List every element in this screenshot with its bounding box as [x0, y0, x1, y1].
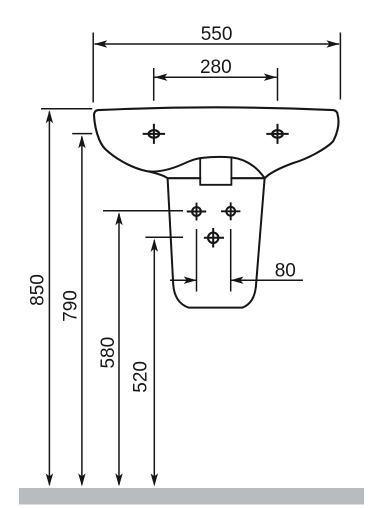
svg-text:280: 280	[200, 57, 232, 78]
dim 790	[72, 134, 92, 485]
svg-text:520: 520	[131, 361, 152, 393]
floor slab	[19, 488, 364, 505]
svg-text:80: 80	[275, 260, 296, 281]
dim 850	[41, 109, 92, 485]
dim 80	[170, 229, 303, 292]
basin outline	[94, 107, 338, 178]
basin hole right crosshair	[266, 124, 288, 144]
pedestal	[168, 178, 265, 307]
pedestal hole left crosshair	[187, 203, 206, 221]
drain box on pedestal	[201, 159, 230, 184]
basin hump curve (bottom of bowl)	[148, 157, 265, 178]
dim 580	[103, 211, 183, 485]
svg-text:850: 850	[28, 274, 49, 306]
dim 520	[145, 237, 183, 484]
dim 280	[154, 68, 278, 101]
pedestal hole right crosshair	[221, 202, 240, 220]
svg-text:580: 580	[98, 337, 119, 369]
dim 550	[93, 33, 340, 103]
svg-text:550: 550	[201, 24, 233, 45]
basin hole left crosshair	[143, 124, 165, 144]
svg-text:790: 790	[61, 290, 82, 322]
pedestal hole middle crosshair	[204, 228, 224, 248]
